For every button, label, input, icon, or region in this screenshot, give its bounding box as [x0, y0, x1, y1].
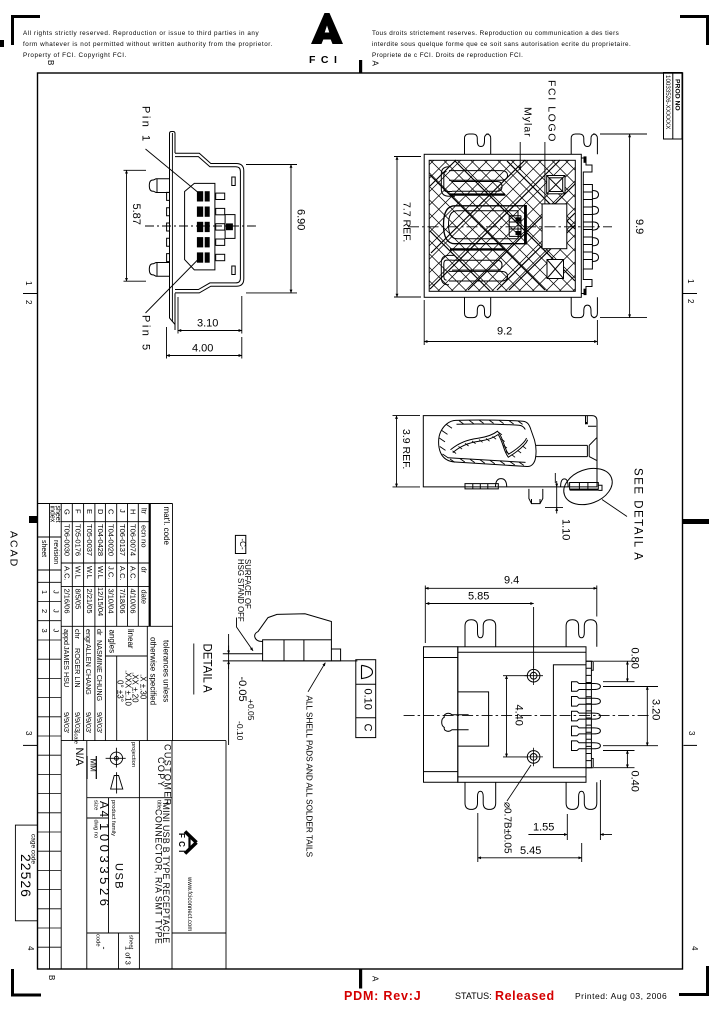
svg-text:T05-0037: T05-0037: [85, 524, 94, 556]
svg-text:A: A: [371, 976, 380, 982]
zone letter B top: [46, 60, 55, 65]
svg-text:FCI: FCI: [309, 54, 342, 66]
svg-text:www.fciconnect.com: www.fciconnect.com: [186, 876, 192, 931]
svg-text:4: 4: [26, 946, 35, 951]
svg-text:4: 4: [690, 946, 699, 951]
label DETAIL A: [194, 644, 213, 695]
mylar window: [542, 204, 567, 249]
smt pin below: [529, 489, 543, 504]
svg-text:appd: appd: [62, 629, 71, 645]
center wall slot: [225, 215, 235, 239]
svg-text:ecn no: ecn no: [140, 525, 149, 548]
svg-text:9/9/03': 9/9/03': [95, 712, 104, 734]
svg-text:J: J: [52, 629, 61, 633]
comb strip: [586, 661, 591, 768]
label Pin 5: [140, 258, 200, 353]
projection cell: [106, 742, 136, 794]
label SURFACE OF HSG STAND OFF: [236, 559, 253, 651]
svg-text:9/9/03': 9/9/03': [84, 712, 93, 734]
svg-text:T06-0137: T06-0137: [118, 524, 127, 556]
svg-text:A.C.: A.C.: [129, 566, 138, 581]
svg-text:A: A: [371, 61, 380, 67]
pin 3 black contact: [197, 222, 210, 232]
svg-text:J.C.: J.C.: [107, 566, 116, 579]
right funnel: [587, 438, 596, 461]
dimension 5.45: [478, 813, 582, 862]
svg-text:T04-0428: T04-0428: [96, 524, 105, 556]
svg-text:0.40: 0.40: [629, 771, 641, 792]
svg-text:T06-0030: T06-0030: [63, 524, 72, 556]
PROD NO box: [664, 73, 683, 140]
mounting leg bottom-left: [465, 297, 491, 317]
dimension 4.00: [167, 327, 242, 359]
dimension 3.20: [603, 687, 662, 746]
pin 1 black contact: [197, 191, 210, 201]
svg-text:Released: Released: [495, 989, 555, 1003]
svg-text:1: 1: [24, 281, 33, 286]
svg-text:product family: product family: [110, 800, 116, 836]
revision row D: [96, 509, 105, 616]
dimension 9.9: [600, 134, 647, 318]
label FCI LOGO: [545, 80, 558, 204]
housing notch: [458, 692, 489, 746]
svg-text:ALL SHELL PADS AND ALL SOLDER: ALL SHELL PADS AND ALL SOLDER TAILS: [305, 696, 314, 858]
svg-text:scale: scale: [73, 731, 79, 745]
svg-text:angles: angles: [107, 630, 116, 654]
datum flag C: [235, 535, 247, 553]
svg-text:2/16/06: 2/16/06: [63, 589, 72, 614]
corner mark top-right: [680, 15, 709, 45]
blob break S-curve: [451, 431, 527, 454]
svg-text:JAMES HSU: JAMES HSU: [62, 646, 71, 687]
shell clip upper: [441, 167, 507, 196]
solder pin 1: [572, 682, 601, 692]
dimension 0.40: [594, 751, 641, 792]
scale cell: [73, 731, 98, 773]
svg-text:-0.10: -0.10: [235, 721, 245, 741]
revision row E: [85, 509, 94, 614]
svg-text:T04-0020: T04-0020: [107, 524, 116, 556]
screw hole upper: [525, 667, 544, 686]
tongue lines: [536, 445, 587, 456]
latch blob: [442, 713, 469, 731]
svg-text:dr: dr: [140, 567, 149, 574]
solder pin 4: [572, 726, 601, 736]
svg-text:form whatever is not permitted: form whatever is not permitted without w…: [23, 41, 273, 48]
svg-text:Pin 5: Pin 5: [140, 315, 152, 353]
svg-text:2: 2: [686, 299, 695, 304]
svg-text:All rights strictly reserved.: All rights strictly reserved. Reproducti…: [23, 30, 259, 37]
svg-text:7.7 REF.: 7.7 REF.: [401, 202, 413, 242]
corner step top-right: [586, 661, 593, 670]
zone tick 3 left: [23, 731, 38, 745]
svg-text:CONNECTOR, R/A SMT TYPE: CONNECTOR, R/A SMT TYPE: [153, 809, 163, 945]
svg-text:9.2: 9.2: [497, 326, 512, 338]
svg-text:D: D: [96, 509, 105, 515]
solder pin 3: [572, 711, 601, 721]
copyright english text: [23, 30, 273, 59]
svg-text:COPY: COPY: [156, 757, 166, 788]
svg-text:date: date: [140, 590, 149, 605]
zone letter 4 left bottom: [26, 946, 35, 951]
svg-text:E: E: [85, 509, 94, 514]
cage code box: [15, 825, 37, 921]
title block grid lines: [38, 504, 227, 969]
svg-text:Mylar: Mylar: [522, 107, 534, 138]
svg-text:Property of FCI. Copyright FC: Property of FCI. Copyright FCI.: [23, 52, 127, 59]
svg-text:B: B: [47, 975, 56, 980]
centerline front view: [145, 225, 257, 227]
plate inner line: [171, 133, 173, 322]
svg-text:projection: projection: [130, 742, 136, 767]
bottom notch semicircle: [496, 479, 507, 487]
dimension 5.85: [426, 591, 534, 669]
svg-text:PDM: Rev:J: PDM: Rev:J: [344, 989, 421, 1003]
see detail leader: [602, 500, 627, 517]
shell corner tab bottom-right: [581, 269, 592, 295]
svg-text:otherwise specified: otherwise specified: [149, 637, 158, 705]
svg-text:J: J: [52, 609, 61, 613]
zone letter B bottom: [47, 975, 56, 980]
svg-text:B: B: [46, 60, 55, 65]
svg-text:T05-0176: T05-0176: [74, 524, 83, 556]
seating plane lower line: [223, 660, 358, 662]
body outer rect: [424, 154, 581, 297]
svg-text:22526: 22526: [18, 854, 34, 898]
FCI logo cell: [177, 832, 197, 932]
svg-text:FCI LOGO: FCI LOGO: [546, 80, 558, 143]
svg-text:1: 1: [40, 590, 49, 594]
body main rect: [458, 647, 586, 783]
svg-text:ROGER LIN: ROGER LIN: [73, 648, 82, 688]
revision row G: [63, 509, 72, 614]
left foot comb: [465, 484, 498, 489]
svg-text:0° ±3°: 0° ±3°: [116, 680, 125, 702]
svg-text:A4: A4: [97, 801, 109, 819]
zone tick 1|2 left: [23, 281, 38, 305]
svg-text:T06-0074: T06-0074: [129, 524, 138, 556]
svg-text:Printed: Aug 03, 2006: Printed: Aug 03, 2006: [575, 991, 667, 1001]
blob edge hatch ticks: [439, 420, 524, 465]
svg-text:C: C: [107, 509, 116, 515]
corner mark bottom-right: [679, 966, 709, 996]
zone letter 4 right bottom: [690, 946, 699, 951]
shell inner outline: [175, 157, 240, 290]
mounting leg top-right: [571, 134, 597, 154]
FCI logo header: [309, 13, 343, 66]
linear tolerance cells: [107, 629, 147, 707]
tolerance text: [235, 677, 256, 741]
customer copy cell: [156, 744, 173, 807]
fold mark left: [29, 516, 38, 523]
revision row J: [118, 509, 127, 614]
dimension 3.10: [178, 296, 242, 334]
svg-text:code: code: [95, 934, 101, 947]
mounting leg bottom-right pair: [566, 782, 597, 809]
svg-text:-: -: [99, 947, 109, 950]
svg-text:1: 1: [686, 279, 695, 284]
svg-text:sheet: sheet: [40, 540, 47, 557]
svg-text:2/21/05: 2/21/05: [85, 589, 94, 614]
sheet index labels: [40, 506, 61, 633]
svg-text:H: H: [129, 509, 138, 514]
blob inner top line: [457, 424, 526, 430]
mounting leg top-right pair: [566, 620, 597, 647]
svg-text:index: index: [49, 506, 56, 523]
svg-text:0.80: 0.80: [629, 648, 641, 669]
body outline: [423, 416, 597, 487]
pin 2 black contact: [197, 207, 210, 217]
pad profile blob: [255, 614, 341, 661]
mounting leg top-left: [465, 134, 491, 154]
svg-text:9.4: 9.4: [504, 575, 519, 587]
svg-text:2: 2: [24, 300, 33, 305]
zone mark A bottom: [359, 969, 380, 989]
flange plate: [170, 132, 176, 325]
size and dwg cells: [92, 800, 124, 910]
svg-text:Propriete de c FCI. Droits de: Propriete de c FCI. Droits de reproducti…: [372, 52, 523, 59]
svg-text:SEE DETAIL A: SEE DETAIL A: [632, 468, 644, 561]
detail ellipse: [559, 462, 618, 511]
revision row F: [74, 509, 83, 609]
mini-B opening: [185, 183, 215, 270]
zone mark A top: [359, 60, 380, 74]
contact tongue middle: [444, 205, 526, 245]
label Pin 1: [140, 106, 201, 194]
bottom notch semicircle right: [561, 479, 569, 487]
fci logo window lower: [547, 260, 564, 279]
svg-text:8/5/05: 8/5/05: [74, 589, 83, 610]
wall band lines: [458, 652, 586, 777]
body inner rect: [429, 160, 575, 291]
dimension 9.4: [425, 575, 597, 644]
solder tail comb right: [583, 185, 598, 270]
dimension 6.90: [246, 165, 307, 293]
standoff dim arrows: [228, 634, 230, 745]
sheet cell: [123, 935, 133, 965]
label Mylar: [520, 107, 533, 170]
svg-text:1.10: 1.10: [560, 519, 572, 540]
svg-text:STATUS:: STATUS:: [455, 991, 492, 1001]
svg-text:9/9/03': 9/9/03': [62, 712, 71, 734]
svg-text:ACAD: ACAD: [8, 531, 20, 568]
dimension 7.7 REF: [394, 157, 421, 298]
top-right notch: [586, 416, 597, 427]
code cell: [95, 934, 110, 950]
mounting leg bottom-right: [571, 297, 597, 317]
zone tick 3 right: [684, 731, 698, 745]
screw hole lower: [525, 748, 544, 767]
svg-text:mat'l. code: mat'l. code: [162, 507, 171, 546]
svg-text:1.55: 1.55: [533, 822, 554, 834]
svg-text:USB: USB: [112, 863, 124, 890]
inner tongue rect: [553, 665, 586, 768]
left plate step lines: [424, 658, 458, 772]
solder pin 5: [572, 741, 601, 751]
revision table header: [140, 508, 149, 604]
ext line above right comb: [554, 473, 556, 483]
svg-text:NASMINE CHUNG: NASMINE CHUNG: [95, 640, 104, 702]
svg-text:W.L: W.L: [96, 566, 105, 579]
svg-text:3: 3: [687, 731, 696, 736]
svg-text:2: 2: [40, 609, 49, 613]
shell outer outline: [175, 153, 244, 293]
svg-text:title: title: [156, 800, 162, 809]
svg-text:3: 3: [40, 629, 49, 633]
svg-text:4.40: 4.40: [513, 705, 525, 726]
fold mark right: [683, 519, 709, 524]
approval names: [62, 629, 104, 734]
svg-text:5.45: 5.45: [520, 845, 541, 857]
plate bottom tip: [174, 325, 176, 331]
svg-text:ltr: ltr: [140, 508, 149, 515]
svg-text:10033526-XXXXXX: 10033526-XXXXXX: [664, 75, 671, 129]
svg-text:dr: dr: [95, 629, 104, 636]
drawing border: [38, 73, 683, 969]
svg-text:5.85: 5.85: [468, 591, 489, 603]
svg-text:7/18/06: 7/18/06: [118, 589, 127, 614]
dimension 1.55: [528, 780, 612, 840]
svg-text:5.87: 5.87: [130, 204, 142, 225]
svg-text:W.L: W.L: [74, 566, 83, 579]
pin 5 black contact: [197, 252, 210, 262]
dimension 4.40: [503, 676, 528, 757]
dimension 9.2: [424, 300, 597, 345]
corner step bottom-right: [586, 759, 593, 768]
svg-text:G: G: [63, 509, 72, 515]
svg-text:0.10: 0.10: [362, 689, 374, 710]
hatched area: [429, 160, 575, 291]
svg-text:W.L: W.L: [85, 566, 94, 579]
svg-text:3: 3: [24, 731, 33, 736]
svg-text:+0.05: +0.05: [246, 699, 256, 721]
svg-text:4.00: 4.00: [192, 343, 213, 355]
svg-text:HSG STAND OFF: HSG STAND OFF: [236, 559, 245, 622]
zone tick 1|2 right: [682, 279, 697, 304]
empty grid rows: [38, 582, 62, 947]
svg-text:Tous droits strictement reserv: Tous droits strictement reserves. Reprod…: [372, 30, 619, 37]
solder lug lower: [149, 263, 169, 277]
svg-text:12/15/04: 12/15/04: [96, 587, 105, 616]
svg-text:engr: engr: [84, 629, 93, 644]
svg-text:linear: linear: [126, 629, 135, 649]
svg-text:4/10/06: 4/10/06: [129, 589, 138, 614]
svg-text:N/A: N/A: [73, 748, 85, 767]
shell right wall slots: [232, 177, 235, 186]
svg-text:DETAIL A: DETAIL A: [201, 644, 213, 694]
MM cell dashes: [87, 756, 96, 779]
svg-text:3.9 REF.: 3.9 REF.: [400, 429, 412, 469]
svg-text:C: C: [362, 724, 374, 732]
dimension 5.87: [124, 170, 147, 281]
blob inner bottom line: [448, 458, 526, 463]
svg-text:chr: chr: [73, 629, 82, 640]
dimension 0.80: [594, 648, 641, 682]
centerline bottom view: [404, 714, 649, 716]
corner mark top-left: [11, 15, 40, 45]
PDM rev text: [344, 989, 421, 1003]
feature control frame: [356, 660, 376, 738]
blob S-curve ticks: [453, 432, 527, 457]
svg-text:⌀0.7B±0.05: ⌀0.7B±0.05: [502, 802, 513, 854]
svg-text:J: J: [118, 509, 127, 513]
svg-text:A.C.: A.C.: [118, 566, 127, 581]
label hole dia: [502, 765, 532, 854]
svg-text:A.C.: A.C.: [63, 566, 72, 581]
svg-text:9.9: 9.9: [633, 219, 645, 234]
right foot tab: [598, 485, 602, 490]
dimension 1.10: [545, 481, 572, 540]
svg-text:interdite sous quelque forme q: interdite sous quelque forme que ce soit…: [372, 41, 631, 48]
edge tick left: [0, 40, 4, 47]
svg-text:J: J: [52, 590, 61, 594]
plate edge bumps: [167, 192, 170, 261]
svg-text:-C-: -C-: [238, 539, 247, 550]
solder pin 2: [572, 697, 601, 707]
shell clip lower: [441, 249, 507, 284]
seating plane upper line: [223, 653, 263, 655]
svg-text:tolerances unless: tolerances unless: [162, 640, 171, 702]
svg-text:ALLEN CHANG: ALLEN CHANG: [84, 644, 93, 695]
svg-text:FCI: FCI: [177, 833, 186, 856]
note ALL SHELL PADS: [305, 663, 326, 858]
shell blob outline: [439, 420, 536, 466]
solder lug upper: [149, 179, 169, 193]
right foot comb: [570, 483, 599, 490]
corner mark bottom-left: [11, 969, 41, 997]
svg-text:10033526: 10033526: [97, 823, 112, 910]
printed date: [575, 991, 667, 1001]
copyright french text: [372, 30, 631, 59]
fci logo window upper: [547, 176, 565, 194]
pin contact slots right wall: [216, 193, 225, 199]
svg-text:PROD NO: PROD NO: [674, 79, 681, 111]
svg-text:6.90: 6.90: [295, 209, 307, 230]
svg-text:Pin 1: Pin 1: [140, 106, 152, 144]
mounting leg bottom-left pair: [465, 782, 496, 809]
dimension 3.9 REF: [393, 416, 421, 487]
revision row C: [107, 509, 116, 614]
status label: [455, 991, 492, 1001]
svg-text:3.10: 3.10: [197, 318, 218, 330]
pin 4 black contact: [197, 237, 210, 247]
released text: [495, 989, 555, 1003]
hatch emphasis diagonals: [430, 160, 575, 290]
tolerances header: [149, 637, 171, 705]
left plate: [424, 647, 458, 783]
svg-text:F: F: [74, 509, 83, 514]
svg-text:3.20: 3.20: [650, 699, 662, 720]
svg-text:1 of 3: 1 of 3: [123, 946, 132, 965]
centerline top view: [408, 226, 612, 228]
mounting leg top-left pair: [465, 620, 496, 647]
revision row H: [129, 509, 138, 614]
svg-text:3/10/04: 3/10/04: [107, 589, 116, 614]
shell corner tab top-right: [581, 156, 592, 184]
title cell: [153, 800, 171, 945]
svg-text:-0.05: -0.05: [236, 677, 248, 702]
svg-text:revision: revision: [52, 540, 59, 564]
